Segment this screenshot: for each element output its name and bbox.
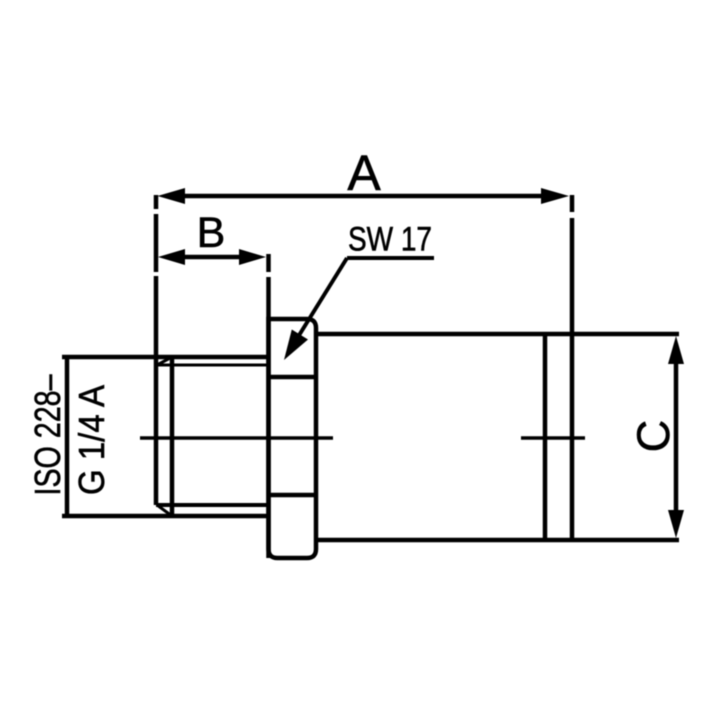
centerline (140, 436, 585, 439)
svg-text:B: B (197, 209, 226, 257)
arrowhead A right (541, 188, 569, 204)
dim B line (170, 255, 255, 260)
thread root line top (157, 364, 268, 367)
svg-text:G 1/4 A: G 1/4 A (71, 385, 112, 495)
dim A line (170, 194, 558, 199)
arrowhead B left (158, 249, 185, 265)
thread top outer line + ISO bracket top tick (62, 355, 268, 360)
ISO bracket vertical (65, 355, 70, 518)
svg-text:SW 17: SW 17 (348, 221, 432, 259)
SW17 leader diagonal (293, 258, 347, 345)
body step line right (543, 334, 548, 540)
SW17 leader underline (347, 256, 434, 260)
arrowhead B right (239, 249, 266, 265)
body top line (extends to C dim) (316, 332, 679, 337)
dim B extension right / hex left edge (266, 254, 271, 558)
svg-text:A: A (347, 145, 381, 201)
dim A extension right / body right edge (570, 195, 575, 540)
thread root line bottom (156, 503, 268, 507)
dim C line (674, 348, 679, 526)
arrowhead A left (158, 188, 186, 204)
svg-text:C: C (628, 420, 679, 453)
arrowhead C top (668, 336, 684, 364)
body bottom line (extends to C dim) (316, 538, 679, 543)
hex nut SW17 outline (269, 319, 317, 558)
svg-text:ISO 228–: ISO 228– (27, 375, 68, 496)
thread chamfer diagonal top (157, 357, 172, 365)
hex flat line lower (269, 493, 317, 498)
arrowhead SW17 leader (284, 330, 308, 361)
arrowhead C bottom (668, 510, 684, 538)
thread chamfer vertical (170, 357, 175, 516)
thread chamfer diagonal bottom (157, 505, 172, 516)
dim A extension left (154, 195, 159, 505)
thread bottom outer line + ISO bracket bottom tick (62, 514, 268, 519)
hex flat line upper (269, 375, 317, 380)
